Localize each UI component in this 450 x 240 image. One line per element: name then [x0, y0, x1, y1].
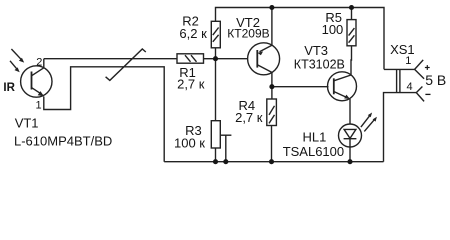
svg-text:2,7 к: 2,7 к — [235, 110, 263, 125]
label plus — [425, 65, 430, 70]
wire XS1 pin1 lead — [384, 68, 415, 70]
connector XS1 contact 1 — [415, 60, 425, 79]
wire VT2 emitter to top rail — [271, 8, 273, 46]
junction top rail / VT2 emitter — [269, 5, 274, 10]
wire XS1 pin4 lead — [384, 93, 417, 162]
IR light arrow 2 — [10, 61, 20, 73]
LED HL1 — [339, 124, 362, 147]
wire R3 bottom lead — [215, 148, 217, 162]
wire R2 bottom lead — [215, 48, 217, 59]
wire node B to VT2 base — [216, 58, 248, 60]
svg-text:L-610MP4BT/BD: L-610MP4BT/BD — [14, 133, 112, 148]
junction R3 bottom — [213, 159, 218, 164]
cable slash mark — [106, 49, 146, 80]
wire R1 right to node B — [204, 58, 216, 60]
svg-text:2: 2 — [36, 56, 42, 68]
wire HL1 cathode to bottom rail — [349, 139, 351, 162]
trimmer R3 wiper tap — [220, 134, 231, 136]
phototransistor VT1 — [21, 59, 52, 98]
transistor VT3 (NPN) — [328, 72, 357, 101]
resistor R1 body — [177, 54, 204, 63]
wire VT1 collector to R1 (wire A) — [44, 58, 177, 60]
svg-text:5 В: 5 В — [425, 72, 446, 88]
svg-text:КТ3102В: КТ3102В — [294, 57, 345, 71]
wire node C to R4 top — [271, 87, 273, 99]
svg-text:4: 4 — [407, 81, 413, 93]
junction node B — [213, 56, 218, 61]
label minus — [425, 93, 430, 95]
wire bottom rail — [164, 161, 383, 163]
IR light arrow 1 — [11, 49, 24, 63]
connector XS1 contact 4 — [416, 87, 424, 102]
junction R4 bottom — [269, 159, 274, 164]
svg-text:6,2 к: 6,2 к — [179, 26, 207, 41]
svg-text:IR: IR — [3, 82, 15, 94]
wire VT3 emitter to HL1 anode — [349, 99, 351, 124]
resistor R2 body — [211, 21, 220, 48]
junction R3 wiper — [223, 159, 228, 164]
svg-text:VT1: VT1 — [15, 116, 39, 131]
svg-text:TSAL6100: TSAL6100 — [283, 144, 344, 159]
resistor R3 body (trimmer) — [211, 121, 220, 148]
connector XS1 coupling lines — [396, 69, 398, 92]
svg-text:100 к: 100 к — [174, 136, 205, 151]
svg-text:1: 1 — [405, 55, 411, 67]
HL1 emission arrow 2 — [364, 117, 377, 132]
junction top rail / R5 — [349, 5, 354, 10]
wire R5 bottom to VT3 collector — [350, 46, 353, 75]
wire node C to VT3 base — [272, 86, 329, 88]
svg-text:VT3: VT3 — [304, 43, 328, 58]
HL1 emission arrow 1 — [361, 113, 372, 128]
junction node C — [269, 84, 274, 89]
wire R4 bottom lead — [271, 126, 273, 162]
svg-text:КТ209В: КТ209В — [227, 26, 269, 40]
svg-text:HL1: HL1 — [303, 129, 327, 144]
wire VT1 emitter return (wire B) — [44, 67, 164, 162]
transistor VT2 (PNP) — [248, 43, 280, 75]
resistor R4 body — [267, 99, 277, 126]
svg-text:1: 1 — [36, 99, 42, 111]
wire top rail — [216, 8, 385, 70]
resistor R5 body — [347, 20, 356, 46]
svg-text:100: 100 — [322, 22, 344, 37]
wire VT2 collector down to node C — [271, 72, 273, 86]
wire R3 top lead — [215, 59, 217, 121]
junction HL1 cathode — [347, 159, 352, 164]
svg-text:2,7 к: 2,7 к — [177, 77, 205, 92]
wire R5 top lead — [351, 8, 353, 20]
